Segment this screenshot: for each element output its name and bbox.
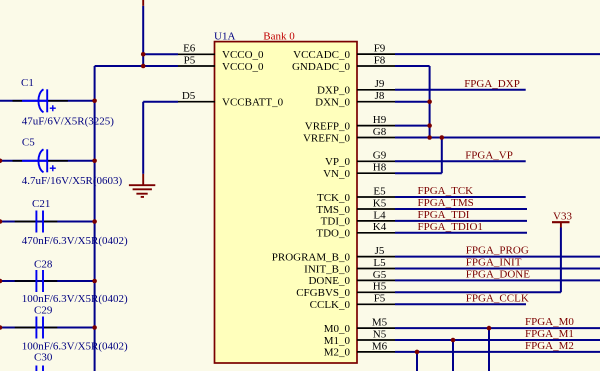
- svg-text:VREFP_0: VREFP_0: [305, 120, 351, 132]
- svg-text:C30: C30: [34, 352, 53, 364]
- svg-text:D5: D5: [182, 90, 196, 102]
- svg-text:U1A: U1A: [214, 30, 235, 42]
- svg-text:DONE_0: DONE_0: [308, 275, 350, 287]
- svg-text:G5: G5: [373, 269, 387, 281]
- svg-text:C1: C1: [21, 77, 34, 89]
- svg-text:FPGA_M1: FPGA_M1: [525, 328, 574, 340]
- svg-text:DXN_0: DXN_0: [315, 97, 350, 109]
- svg-text:VN_0: VN_0: [323, 168, 350, 180]
- svg-text:M2_0: M2_0: [324, 347, 351, 359]
- svg-text:H9: H9: [373, 114, 387, 126]
- svg-text:P5: P5: [184, 54, 196, 66]
- svg-text:FPGA_DXP: FPGA_DXP: [464, 78, 520, 90]
- svg-text:4.7uF/16V/X5R(0603): 4.7uF/16V/X5R(0603): [22, 175, 123, 187]
- svg-text:INIT_B_0: INIT_B_0: [304, 263, 350, 275]
- svg-text:C29: C29: [34, 305, 53, 317]
- svg-text:FPGA_TMS: FPGA_TMS: [418, 197, 474, 209]
- svg-text:F5: F5: [374, 293, 386, 305]
- svg-text:FPGA_PROG: FPGA_PROG: [466, 245, 529, 257]
- svg-text:VCCADC_0: VCCADC_0: [293, 49, 350, 61]
- svg-text:VP_0: VP_0: [325, 156, 351, 168]
- svg-text:M0_0: M0_0: [324, 323, 351, 335]
- svg-text:L5: L5: [373, 257, 386, 269]
- svg-text:H8: H8: [373, 162, 387, 174]
- svg-text:FPGA_DONE: FPGA_DONE: [466, 268, 530, 280]
- svg-text:TDO_0: TDO_0: [316, 228, 350, 240]
- svg-text:J5: J5: [375, 245, 385, 257]
- svg-text:FPGA_TCK: FPGA_TCK: [418, 185, 474, 197]
- svg-text:VREFN_0: VREFN_0: [303, 132, 351, 144]
- svg-text:G8: G8: [373, 126, 387, 138]
- svg-text:FPGA_TDIO1: FPGA_TDIO1: [418, 221, 483, 233]
- svg-text:M6: M6: [372, 340, 388, 352]
- svg-text:TDI_0: TDI_0: [321, 216, 351, 228]
- svg-text:100nF/6.3V/X5R(0402): 100nF/6.3V/X5R(0402): [22, 293, 128, 305]
- svg-text:K4: K4: [373, 221, 387, 233]
- svg-text:DXP_0: DXP_0: [317, 85, 351, 97]
- svg-text:CCLK_0: CCLK_0: [310, 299, 351, 311]
- svg-text:C28: C28: [34, 259, 53, 271]
- svg-text:M1_0: M1_0: [324, 335, 351, 347]
- svg-text:FPGA_M2: FPGA_M2: [525, 340, 574, 352]
- svg-text:TMS_0: TMS_0: [316, 204, 350, 216]
- svg-text:PROGRAM_B_0: PROGRAM_B_0: [272, 251, 351, 263]
- svg-text:FPGA_VP: FPGA_VP: [465, 149, 513, 161]
- svg-text:V33: V33: [553, 211, 572, 223]
- svg-text:C5: C5: [22, 136, 35, 148]
- svg-text:N5: N5: [373, 328, 387, 340]
- svg-text:F9: F9: [374, 43, 386, 55]
- svg-text:K5: K5: [373, 197, 387, 209]
- svg-text:J9: J9: [375, 78, 385, 90]
- svg-text:100nF/6.3V/X5R(0402): 100nF/6.3V/X5R(0402): [22, 340, 128, 352]
- svg-text:F8: F8: [374, 54, 386, 66]
- svg-text:FPGA_M0: FPGA_M0: [525, 316, 574, 328]
- svg-text:470nF/6.3V/X5R(0402): 470nF/6.3V/X5R(0402): [22, 235, 128, 247]
- svg-text:VCCO_0: VCCO_0: [222, 49, 264, 61]
- svg-text:H5: H5: [373, 281, 387, 293]
- svg-text:C21: C21: [32, 198, 50, 210]
- svg-text:FPGA_INIT: FPGA_INIT: [466, 257, 522, 269]
- svg-text:M5: M5: [372, 317, 388, 329]
- svg-text:VCCO_0: VCCO_0: [222, 61, 264, 73]
- svg-text:G9: G9: [373, 150, 387, 162]
- svg-text:Bank 0: Bank 0: [263, 30, 295, 42]
- svg-text:FPGA_TDI: FPGA_TDI: [418, 209, 470, 221]
- svg-text:E6: E6: [183, 43, 196, 55]
- svg-text:L4: L4: [373, 209, 386, 221]
- svg-text:VCCBATT_0: VCCBATT_0: [222, 97, 284, 109]
- svg-text:47uF/6V/X5R(3225): 47uF/6V/X5R(3225): [22, 116, 115, 128]
- svg-text:TCK_0: TCK_0: [317, 192, 351, 204]
- svg-text:CFGBVS_0: CFGBVS_0: [296, 287, 350, 299]
- svg-text:J8: J8: [375, 90, 385, 102]
- svg-text:FPGA_CCLK: FPGA_CCLK: [466, 292, 529, 304]
- svg-text:E5: E5: [373, 185, 386, 197]
- svg-text:GNDADC_0: GNDADC_0: [292, 61, 351, 73]
